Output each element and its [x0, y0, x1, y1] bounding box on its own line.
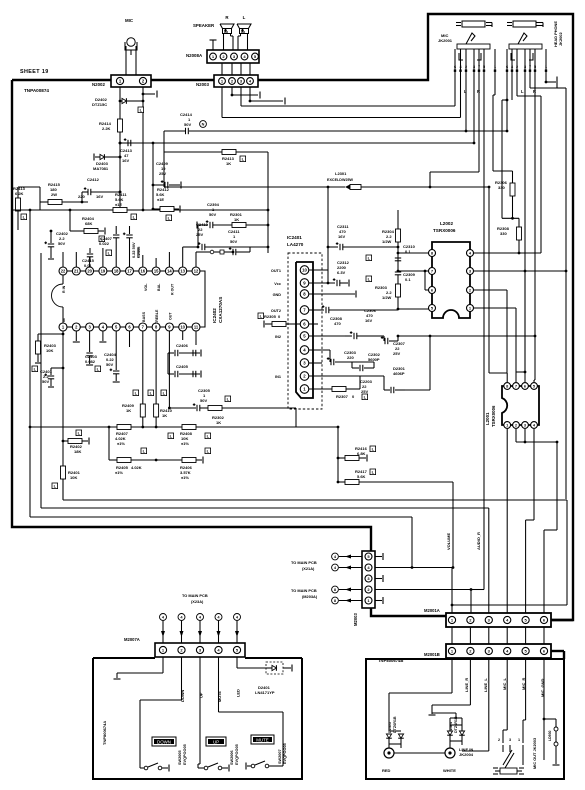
wire pin11 down [195, 331, 197, 345]
svg-text:TSRX0006: TSRX0006 [491, 405, 496, 427]
svg-text:1K: 1K [234, 217, 239, 222]
svg-text:(X23A): (X23A) [191, 599, 204, 604]
wires from JK2001 pins [454, 71, 456, 106]
wire M2001B right stub [551, 650, 564, 652]
capacitor C2304 220 16V [309, 362, 322, 364]
svg-text:L2001: L2001 [485, 412, 490, 425]
svg-text:R: R [225, 15, 229, 20]
svg-text:18K: 18K [74, 449, 81, 454]
svg-text:±1E: ±1E [157, 197, 164, 202]
wires into M2001A from above [488, 508, 490, 613]
svg-text:10K: 10K [46, 348, 53, 353]
svg-text:M2001B: M2001B [424, 652, 440, 657]
long bus wire [17, 222, 19, 230]
svg-text:OUT2: OUT2 [271, 309, 281, 313]
svg-text:RED: RED [382, 768, 391, 773]
svg-text:50V: 50V [200, 398, 207, 403]
main board outline TNPA00874 [12, 14, 573, 620]
svg-text:TNP800674A: TNP800674A [102, 721, 107, 745]
svg-text:AUDIO_R: AUDIO_R [476, 532, 481, 550]
svg-text:0.1: 0.1 [405, 277, 411, 282]
svg-text:5600P: 5600P [368, 357, 380, 362]
svg-text:EVQPOO05: EVQPOO05 [235, 744, 239, 765]
svg-text:0: 0 [278, 314, 281, 319]
wires below L2001 [506, 429, 508, 613]
svg-text:SPEAKER: SPEAKER [193, 23, 215, 28]
wires speakers to N2008A [223, 34, 225, 51]
svg-text:11: 11 [194, 324, 199, 329]
svg-text:68K: 68K [85, 221, 92, 226]
svg-text:IN1: IN1 [275, 375, 281, 379]
wire feedback loop top [164, 151, 268, 153]
wire pin2 [309, 375, 384, 377]
svg-text:MIC_L: MIC_L [502, 677, 507, 690]
jack body bottom [495, 770, 500, 772]
svg-text:C2405: C2405 [176, 364, 189, 369]
wire feed y143 [132, 142, 474, 144]
svg-text:330: 330 [500, 231, 507, 236]
svg-text:TREBLE: TREBLE [155, 309, 159, 324]
svg-text:25V: 25V [393, 351, 400, 356]
svg-text:(X21A): (X21A) [302, 566, 315, 571]
svg-text:25V: 25V [159, 171, 166, 176]
svg-text:12: 12 [194, 268, 199, 273]
svg-text:MUTE: MUTE [256, 737, 269, 742]
node at N2002 pin2 / stub [142, 93, 145, 96]
svg-text:TSRX0006: TSRX0006 [433, 228, 456, 233]
svg-text:EVQPOO05: EVQPOO05 [283, 743, 287, 764]
svg-text:GND: GND [273, 293, 282, 297]
IC2402 top pin stubs [62, 252, 64, 267]
svg-text:SW2005: SW2005 [178, 750, 182, 765]
jack body JK2002 [509, 44, 542, 49]
svg-text:N: N [202, 123, 205, 127]
wire N2003 pin4 stub [249, 87, 251, 101]
wire pin4 to MUTE switch [218, 657, 220, 712]
svg-text:JK2002: JK2002 [558, 32, 563, 46]
svg-text:DTZ15C: DTZ15C [92, 102, 107, 107]
svg-text:4606P: 4606P [393, 371, 405, 376]
jack body JK2001 [457, 44, 490, 49]
wire N2002 pin2 down [142, 87, 144, 210]
IC2402 bottom pins [63, 326, 76, 328]
button UP SW2006 [206, 737, 226, 746]
svg-text:LINE_R: LINE_R [464, 678, 469, 692]
svg-text:Vcc: Vcc [274, 282, 281, 286]
button DOWN SW2005 [152, 737, 176, 746]
svg-text:±1%: ±1% [181, 475, 189, 480]
svg-text:±1E: ±1E [115, 202, 122, 207]
svg-text:N2008A: N2008A [186, 53, 203, 58]
svg-text:16V: 16V [338, 234, 345, 239]
svg-text:C2412: C2412 [87, 177, 100, 182]
svg-text:SW2007: SW2007 [278, 749, 282, 764]
svg-text:C2414: C2414 [180, 112, 193, 117]
svg-text:LED: LED [236, 689, 241, 697]
jack contact hooks JK2002 [511, 53, 515, 60]
svg-text:25V: 25V [196, 232, 203, 237]
svg-text:BASS: BASS [142, 311, 146, 322]
svg-text:6.2K: 6.2K [15, 191, 24, 196]
wire IC pin1 column [62, 331, 64, 499]
board outline TNP800674A [93, 658, 302, 779]
wire R2401 to bottom bus [62, 499, 64, 500]
ground pin2 [75, 331, 77, 341]
svg-text:N2002: N2002 [92, 82, 105, 87]
svg-text:JK2001: JK2001 [438, 38, 453, 43]
svg-text:10: 10 [180, 324, 185, 329]
svg-text:TO MAIN PCB: TO MAIN PCB [291, 560, 317, 565]
svg-text:EVQPOO05: EVQPOO05 [183, 744, 187, 765]
svg-text:1K: 1K [226, 161, 231, 166]
wire to rails [405, 389, 430, 391]
svg-text:50V: 50V [106, 362, 113, 367]
svg-text:470: 470 [334, 321, 341, 326]
switch contacts DOWN [144, 766, 148, 770]
wire left verticals [29, 210, 31, 517]
svg-text:13: 13 [180, 268, 185, 273]
svg-text:MA7081: MA7081 [93, 166, 109, 171]
svg-text:IN: IN [62, 318, 66, 322]
svg-text:16V: 16V [122, 158, 129, 163]
svg-text:C2406: C2406 [176, 343, 189, 348]
svg-text:M2001A: M2001A [424, 608, 440, 613]
svg-text:WHITE: WHITE [443, 768, 456, 773]
svg-text:R2305: R2305 [264, 314, 277, 319]
svg-text:25V: 25V [361, 389, 368, 394]
svg-text:JK2004: JK2004 [459, 752, 474, 757]
svg-text:19: 19 [101, 268, 106, 273]
svg-text:14: 14 [167, 268, 172, 273]
wire pin8 [309, 293, 355, 295]
svg-text:MUTE: MUTE [217, 691, 222, 702]
svg-text:16: 16 [141, 268, 146, 273]
svg-text:LINE_L: LINE_L [483, 678, 488, 692]
svg-text:7: 7 [515, 383, 517, 388]
svg-text:6.3V: 6.3V [337, 270, 346, 275]
svg-text:SW2006: SW2006 [230, 750, 234, 765]
svg-text:IC2402: IC2402 [212, 308, 217, 323]
button MUTE SW2007 [251, 735, 274, 744]
svg-text:1: 1 [518, 738, 520, 742]
switch contacts MUTE [251, 764, 255, 768]
wire volume horizontals [375, 567, 453, 569]
svg-text:TNPA00874: TNPA00874 [24, 88, 49, 93]
svg-text:R2307: R2307 [336, 394, 349, 399]
svg-text:OUT: OUT [168, 312, 172, 320]
ground near N2008A [210, 39, 217, 41]
svg-text:L2002: L2002 [440, 221, 453, 226]
ground in box [431, 705, 433, 714]
svg-text:21: 21 [74, 268, 79, 273]
svg-text:220: 220 [347, 355, 354, 360]
svg-text:17: 17 [127, 268, 132, 273]
svg-text:R OUT: R OUT [170, 283, 174, 295]
wire L2002 row y271 [398, 270, 432, 272]
svg-text:0: 0 [352, 394, 355, 399]
wires from L2002 right [474, 252, 541, 254]
wire right edge run [565, 88, 567, 499]
svg-text:VOL: VOL [144, 283, 148, 291]
wire L2002 row y290 [425, 289, 432, 291]
svg-text:BAL: BAL [157, 283, 161, 291]
svg-text:CXA1270AS: CXA1270AS [218, 297, 223, 323]
svg-text:50V: 50V [184, 122, 191, 127]
svg-text:1/2W: 1/2W [382, 295, 392, 300]
wire y605 to M2001A pin1 [452, 604, 567, 606]
svg-text:(M203A): (M203A) [302, 594, 318, 599]
svg-text:50V: 50V [209, 212, 216, 217]
svg-text:±1%: ±1% [117, 441, 125, 446]
wire N2003 pin1 [221, 87, 223, 118]
svg-text:330: 330 [498, 185, 505, 190]
left long wires to bottom right [63, 499, 567, 501]
svg-text:LA4270: LA4270 [287, 242, 304, 247]
wires N2008A to N2003 [221, 63, 223, 75]
wire pin6 stub [309, 323, 318, 325]
svg-text:M2003: M2003 [353, 613, 358, 626]
wires between M2001A and M2001B [451, 627, 453, 644]
wire pin2 to DOWN switch [181, 657, 183, 700]
wire jack runs right [488, 187, 490, 373]
svg-text:50V: 50V [58, 241, 65, 246]
wire RED to WHITE [394, 752, 445, 754]
wires above L2001 [489, 372, 507, 374]
svg-text:DOWN: DOWN [157, 739, 171, 744]
svg-text:3: 3 [509, 738, 511, 742]
svg-text:L2301: L2301 [335, 171, 347, 176]
svg-text:LN4171YP: LN4171YP [255, 690, 275, 695]
svg-text:0.082: 0.082 [85, 359, 96, 364]
svg-text:N2003: N2003 [196, 82, 209, 87]
svg-text:L: L [243, 15, 246, 20]
svg-text:16V: 16V [96, 194, 103, 199]
wires from JK2002 pins [506, 71, 508, 131]
wire pin9 down [168, 331, 170, 408]
M2003 tbar stubs [375, 556, 382, 558]
svg-text:16V: 16V [365, 318, 372, 323]
svg-text:5.6K: 5.6K [357, 474, 366, 479]
svg-text:DTZ6R1B: DTZ6R1B [393, 716, 397, 733]
wire bus y210 right [127, 209, 268, 211]
svg-text:1/2W: 1/2W [382, 239, 392, 244]
svg-text:10K: 10K [70, 475, 77, 480]
svg-text:±1%: ±1% [115, 470, 123, 475]
bus wire y427 [30, 426, 338, 428]
svg-text:EXCELDW25W: EXCELDW25W [327, 178, 354, 182]
svg-text:18: 18 [114, 268, 119, 273]
svg-text:OUT1: OUT1 [271, 269, 281, 273]
wire pin3 to UP switch [199, 657, 201, 764]
svg-text:2.2K: 2.2K [102, 126, 111, 131]
board outline TNP800674B [366, 659, 564, 779]
wires M2001B pins down [451, 658, 453, 693]
svg-text:L: L [521, 89, 524, 94]
wire N2003 pin2 stub [231, 87, 233, 95]
svg-text:SHEET 19: SHEET 19 [20, 69, 49, 75]
svg-text:MIC: MIC [125, 18, 134, 23]
wire L2002 row y253 [398, 252, 432, 254]
wire pins 5-6 stubs [129, 331, 131, 347]
wire pin10 up to L2301 [309, 269, 328, 271]
wire mic to N2002 [125, 46, 127, 75]
svg-text:R IN: R IN [62, 285, 66, 293]
svg-text:1K: 1K [216, 420, 221, 425]
svg-text:VOLUME: VOLUME [446, 533, 451, 550]
switch contacts UP [204, 766, 208, 770]
svg-text:4.02K: 4.02K [131, 465, 142, 470]
jack contact hooks JK2001 [459, 53, 463, 60]
svg-text:UP: UP [199, 692, 204, 698]
svg-text:TO MAIN PCB: TO MAIN PCB [182, 593, 208, 598]
svg-text:22: 22 [61, 268, 66, 273]
svg-text:M2007A: M2007A [124, 637, 140, 642]
ground at JK2002 [545, 71, 547, 82]
svg-text:UP: UP [213, 739, 219, 744]
svg-text:15: 15 [154, 268, 159, 273]
wire N2003 pin3 [240, 87, 242, 106]
svg-text:10: 10 [302, 268, 307, 273]
svg-text:IC2401: IC2401 [287, 235, 302, 240]
svg-text:LD930: LD930 [548, 730, 552, 741]
wire N2002 pin1 down [119, 87, 121, 119]
ground from pin1 [162, 657, 164, 673]
svg-text:TO MAIN PCB: TO MAIN PCB [291, 588, 317, 593]
svg-text:20: 20 [87, 268, 92, 273]
wire y460 [108, 427, 110, 460]
svg-text:2W: 2W [51, 192, 57, 197]
svg-text:IN2: IN2 [275, 335, 281, 339]
svg-text:50V: 50V [42, 379, 49, 384]
svg-text:MIC OUT JK2003: MIC OUT JK2003 [532, 737, 537, 769]
wire mid bus to right [296, 426, 338, 428]
wire VOLUME down [452, 482, 454, 568]
svg-text:50V: 50V [230, 239, 237, 244]
svg-text:2: 2 [498, 738, 500, 742]
IC2402 top pins [63, 270, 76, 272]
svg-text:1K: 1K [162, 413, 167, 418]
layout mark [138, 107, 144, 113]
svg-text:1K: 1K [126, 408, 131, 413]
svg-text:±1%: ±1% [181, 441, 189, 446]
svg-text:0.022: 0.022 [99, 241, 110, 246]
wire M2001A right to border [551, 619, 573, 621]
